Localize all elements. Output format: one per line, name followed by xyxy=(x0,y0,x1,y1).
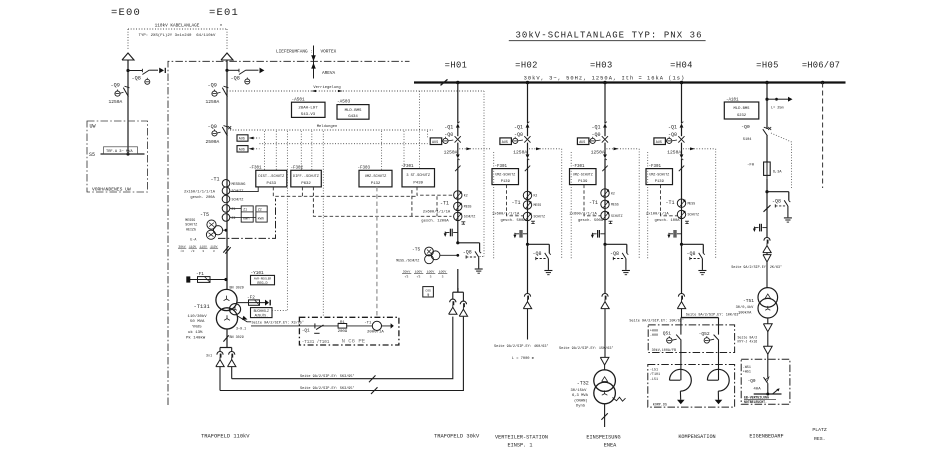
svg-text:PLATZ: PLATZ xyxy=(812,427,827,433)
wire H02 cable xyxy=(527,309,529,340)
svg-text:-Q1: -Q1 xyxy=(302,328,310,333)
dashed P433/P632 links xyxy=(273,187,417,196)
svg-text:KOMP.DS: KOMP.DS xyxy=(653,403,667,407)
svg-text:-Q9: -Q9 xyxy=(111,82,120,88)
sealing end H01 cable b xyxy=(460,301,466,304)
svg-text:100V: 100V xyxy=(427,269,435,273)
svg-text:3~9.1: 3~9.1 xyxy=(236,327,246,331)
svg-text:-Q0: -Q0 xyxy=(741,124,750,130)
svg-text:=H03: =H03 xyxy=(590,60,613,70)
svg-text:100kVA: 100kVA xyxy=(738,310,752,315)
dashed P439 to H01 CT xyxy=(417,187,453,195)
wire H03 cable xyxy=(604,309,606,358)
reactor 2 xyxy=(718,353,720,381)
wire feeder x=681.5 xyxy=(681,83,683,124)
svg-text:-T1: -T1 xyxy=(440,201,449,207)
svg-text:2x600/1/1/1A: 2x600/1/1/1A xyxy=(423,210,451,215)
svg-text:MESSG: MESSG xyxy=(185,218,195,222)
dashed P132 to N-CT xyxy=(376,187,378,317)
svg-text:Seite 9A/2/SIP.EY: 5K3/95°: Seite 9A/2/SIP.EY: 5K3/95° xyxy=(300,386,355,391)
svg-text:1x600/1/1/1A: 1x600/1/1/1A xyxy=(492,211,520,216)
earthing switch -Q8 xyxy=(603,243,606,246)
svg-text:28AH-L97: 28AH-L97 xyxy=(298,107,318,111)
cable split bar (H01 side) xyxy=(453,291,464,293)
svg-text:LIEFERUMFANG :: LIEFERUMFANG : xyxy=(276,50,313,55)
earthing switch -Q8 xyxy=(526,243,529,246)
circuit breaker -Q0/-Q1 xyxy=(680,123,684,127)
arrow down 2 (H05) xyxy=(763,324,772,332)
svg-text:L = 7000 m: L = 7000 m xyxy=(512,357,535,361)
signal dotted line Meldungen xyxy=(230,129,433,131)
svg-text:-Q1: -Q1 xyxy=(668,124,677,130)
svg-text:=H06/07: =H06/07 xyxy=(802,60,840,70)
earthing switch -Q8 (H05) xyxy=(765,190,768,193)
svg-text:ENEA: ENEA xyxy=(604,443,617,449)
svg-text:-Q0: -Q0 xyxy=(748,379,756,384)
svg-text:1250A: 1250A xyxy=(109,99,123,105)
svg-text:200Ω: 200Ω xyxy=(338,330,348,334)
svg-text:-H00: -H00 xyxy=(650,334,658,338)
wall bushing E01 xyxy=(260,68,265,74)
svg-text:MESS./SCHUTZ: MESS./SCHUTZ xyxy=(396,258,419,262)
transformer -T32 xyxy=(604,365,606,370)
svg-text:gesch. 500A: gesch. 500A xyxy=(578,218,604,223)
svg-text:UMZ-SCHUTZ: UMZ-SCHUTZ xyxy=(649,172,669,176)
svg-text:MESSUNG: MESSUNG xyxy=(232,182,246,186)
neutral earthing box N C6 PE xyxy=(299,317,399,345)
svg-text:MESS: MESS xyxy=(611,203,619,207)
svg-text:√3: √3 xyxy=(180,249,184,253)
reactor box -L51 xyxy=(648,365,735,408)
svg-text:-T1: -T1 xyxy=(364,322,372,326)
svg-text:P139: P139 xyxy=(501,180,511,184)
svg-text:-Q8: -Q8 xyxy=(533,251,542,257)
svg-text:Seite 9A/2/SIP.EY: X3/95°: Seite 9A/2/SIP.EY: X3/95° xyxy=(252,320,305,325)
svg-text:MLD.BMS: MLD.BMS xyxy=(734,107,751,111)
svg-text:110V: 110V xyxy=(200,245,207,248)
svg-text:REG-D: REG-D xyxy=(257,282,267,286)
svg-text:-T131: -T131 xyxy=(194,304,210,310)
svg-text:-T51: -T51 xyxy=(743,298,754,304)
cable sealing end xyxy=(604,244,606,294)
svg-text:-Q1: -Q1 xyxy=(444,124,453,130)
svg-text:P132: P132 xyxy=(371,182,381,186)
svg-text:(ONAN): (ONAN) xyxy=(574,398,588,403)
svg-text:-Q52: -Q52 xyxy=(699,331,710,337)
svg-text:MLD.BMS: MLD.BMS xyxy=(345,109,362,113)
svg-text:Pk 140kW: Pk 140kW xyxy=(186,335,206,340)
junction E00 xyxy=(126,69,129,72)
svg-text:VORTEX: VORTEX xyxy=(321,50,337,55)
svg-text:100V: 100V xyxy=(415,269,423,273)
svg-text:2x100/1/1A: 2x100/1/1A xyxy=(646,211,670,216)
svg-text:AREVA: AREVA xyxy=(322,71,336,76)
signal dotted line 2 xyxy=(260,143,428,145)
dashed relay-CT link xyxy=(507,185,524,216)
svg-text:110V: 110V xyxy=(189,245,196,248)
svg-text:DIST.-SCHUTZ: DIST.-SCHUTZ xyxy=(258,175,285,179)
svg-text:NYY-J 4x16: NYY-J 4x16 xyxy=(738,340,758,344)
wire feeder x=527.5 xyxy=(527,83,529,124)
trip box AUS 1 (E01) xyxy=(237,135,248,141)
svg-text:-T1: -T1 xyxy=(589,200,598,206)
svg-text:EIGENBEDARF: EIGENBEDARF xyxy=(749,433,783,439)
cable sealing end xyxy=(681,244,683,294)
svg-text:AUS: AUS xyxy=(656,141,662,145)
sealing end trafo cable a xyxy=(217,352,223,355)
svg-text:-F0: -F0 xyxy=(747,164,755,168)
svg-text:+W51: +W51 xyxy=(743,371,751,375)
reactor 1 xyxy=(680,353,682,381)
svg-text:-Q0: -Q0 xyxy=(514,132,523,138)
svg-text:P632: P632 xyxy=(301,182,311,186)
cable tick marks xyxy=(223,246,228,252)
svg-text:K2: K2 xyxy=(534,194,538,198)
circuit breaker -Q0/-Q1 (H01) xyxy=(456,123,460,127)
power transformer -T131 xyxy=(216,289,237,310)
svg-text:RES.: RES. xyxy=(814,436,826,442)
neutral wire to N-box xyxy=(238,316,252,322)
svg-text:100V: 100V xyxy=(439,269,447,273)
svg-text:Seite 9A/2/SIP.EY: 10K/63°: Seite 9A/2/SIP.EY: 10K/63° xyxy=(686,312,741,317)
svg-text:3: 3 xyxy=(442,274,444,278)
svg-text:AUS: AUS xyxy=(502,141,508,145)
tap arrow to H06 xyxy=(765,98,768,101)
svg-text:-Q1: -Q1 xyxy=(514,124,523,130)
svg-text:gesch. 200A: gesch. 200A xyxy=(190,195,215,200)
bay H01 dotted cubicle outline xyxy=(419,91,421,168)
svg-text:-T1: -T1 xyxy=(666,200,675,206)
svg-text:YNd5: YNd5 xyxy=(192,325,202,330)
svg-text:1250A: 1250A xyxy=(513,150,527,156)
svg-text:-Q1: -Q1 xyxy=(591,124,600,130)
svg-text:AUS: AUS xyxy=(432,141,438,145)
svg-text:MESS: MESS xyxy=(534,203,542,207)
svg-text:-A503: -A503 xyxy=(337,100,351,105)
earthing switch -Q8 xyxy=(680,243,683,246)
svg-text:Z2: Z2 xyxy=(258,207,262,211)
svg-text:1250A: 1250A xyxy=(667,150,681,156)
svg-text:=H05: =H05 xyxy=(756,60,779,70)
svg-text:-L51: -L51 xyxy=(650,378,658,382)
svg-text:UMZ-SCHUTZ: UMZ-SCHUTZ xyxy=(365,175,387,179)
svg-text:-T5: -T5 xyxy=(412,247,421,253)
svg-text:1250A: 1250A xyxy=(444,150,458,156)
dashed relay-CT link xyxy=(661,185,678,216)
svg-text:=H04: =H04 xyxy=(670,60,693,70)
svg-text:3: 3 xyxy=(430,274,432,278)
wire H05 feeder xyxy=(766,83,768,130)
svg-text:-T32: -T32 xyxy=(577,380,589,386)
svg-text:Seite 9A/2/SIP.EY: 15K/63°: Seite 9A/2/SIP.EY: 15K/63° xyxy=(559,346,614,351)
svg-text:SCHUTZ: SCHUTZ xyxy=(185,222,197,226)
disconnector -Q9 (E01) xyxy=(224,86,229,88)
svg-text:30kV,100A/FB: 30kV,100A/FB xyxy=(652,348,676,353)
wire E01 main down xyxy=(226,183,228,290)
circuit breaker -Q0/-Q1 xyxy=(526,123,530,127)
svg-text:AUSLÖS.: AUSLÖS. xyxy=(255,313,268,317)
arrow down (H05) xyxy=(763,255,771,262)
svg-text:30kV-SCHALTANLAGE TYP: PNX 36: 30kV-SCHALTANLAGE TYP: PNX 36 xyxy=(515,31,702,41)
svg-text:-T131 /T101: -T131 /T101 xyxy=(302,340,330,345)
wire to junction xyxy=(766,179,768,192)
svg-text:=H01: =H01 xyxy=(445,60,468,70)
cable split bar (trafo side) xyxy=(220,347,232,349)
svg-text:Seite 9A/2/SIP.EY: 4K0/63°: Seite 9A/2/SIP.EY: 4K0/63° xyxy=(494,344,549,349)
scope boundary dash-dot xyxy=(168,61,410,405)
switch cubicle box (Q51/Q52) xyxy=(648,325,734,353)
svg-text:NOTBELEUCHT.: NOTBELEUCHT. xyxy=(744,400,767,404)
svg-text:1250A: 1250A xyxy=(206,99,220,105)
svg-text:40A: 40A xyxy=(753,387,761,391)
svg-text:-Q8: -Q8 xyxy=(772,198,781,204)
dashed P632 to H01 CT xyxy=(313,187,451,216)
svg-text:G434: G434 xyxy=(348,115,358,119)
svg-text:L= 25m: L= 25m xyxy=(771,106,784,110)
svg-text:-Q0: -Q0 xyxy=(444,132,453,138)
svg-text:BN 3029: BN 3029 xyxy=(230,286,244,290)
earthing switch -Q8 (H01) xyxy=(456,241,459,244)
svg-text:E-A: E-A xyxy=(190,238,196,242)
wall bushing E00 xyxy=(159,68,164,74)
svg-text:2000/1A: 2000/1A xyxy=(367,330,384,335)
surge capacitor xyxy=(677,233,682,235)
wire P433 to CT xyxy=(230,187,258,192)
wire to T51 xyxy=(766,262,768,288)
svg-text:-Q0: -Q0 xyxy=(591,132,600,138)
cable sealing end xyxy=(527,244,529,294)
svg-text:P139: P139 xyxy=(578,180,588,184)
svg-text:UMZ-SCHUTZ: UMZ-SCHUTZ xyxy=(495,172,515,176)
svg-text:-Q8: -Q8 xyxy=(687,251,696,257)
svg-text:TRF.A 3~ MVA: TRF.A 3~ MVA xyxy=(106,150,133,154)
svg-text:-L51: -L51 xyxy=(650,369,658,373)
svg-text:S5: S5 xyxy=(89,152,95,158)
110kV cable dotted outline xyxy=(128,28,227,30)
wire T32 down xyxy=(604,404,606,427)
wire E00 drop xyxy=(127,60,129,154)
svg-text:S43-V3: S43-V3 xyxy=(301,113,316,117)
svg-text:3: 3 xyxy=(202,250,204,253)
current transformers -T1 xyxy=(523,191,531,199)
bay dotted cubicle outline xyxy=(493,152,495,260)
svg-text:-Q8: -Q8 xyxy=(132,76,141,82)
disconnector -Q8 (E00) xyxy=(142,70,149,75)
circuit breaker -Q0/-Q1 xyxy=(603,123,607,127)
LV distribution box xyxy=(741,359,790,404)
svg-text:√3: √3 xyxy=(417,274,421,278)
busbar 30kV xyxy=(414,81,846,83)
svg-text:2x150/1/1/1/1A: 2x150/1/1/1/1A xyxy=(184,190,216,195)
svg-text:Seite 9A/2/SIP.EY: 2K/63°: Seite 9A/2/SIP.EY: 2K/63° xyxy=(731,265,782,270)
wire feeder x=605.0 xyxy=(604,83,606,124)
svg-text:Z2: Z2 xyxy=(232,216,236,220)
kWh meter 1 xyxy=(241,206,253,222)
svg-text:30/0,4kV: 30/0,4kV xyxy=(736,305,754,310)
svg-text:BN 3029: BN 3029 xyxy=(230,336,244,340)
svg-text:Seite 9A/2/SIP.EY: 10K/63°: Seite 9A/2/SIP.EY: 10K/63° xyxy=(629,318,684,323)
svg-text:3 ST.SCHUTZ: 3 ST.SCHUTZ xyxy=(406,174,431,178)
svg-text:K2: K2 xyxy=(464,193,468,197)
svg-text:MESS: MESS xyxy=(464,205,472,209)
sealing end trafo cable b xyxy=(229,352,235,355)
svg-text:DIFF.-SCHUTZ: DIFF.-SCHUTZ xyxy=(293,175,320,179)
cable termination E01 xyxy=(221,53,233,60)
svg-text:n: n xyxy=(220,24,222,28)
wire E01 tap xyxy=(227,69,239,71)
svg-text:-Q8: -Q8 xyxy=(463,249,472,255)
svg-text:TRAFOFELD 110kV: TRAFOFELD 110kV xyxy=(201,433,250,439)
svg-text:N C6 PE: N C6 PE xyxy=(342,337,366,344)
buchholz relay box xyxy=(251,308,273,318)
svg-text:P139: P139 xyxy=(655,180,665,184)
disconnector -Q8 (E01) xyxy=(239,70,246,75)
disconnector -Q9 (E00) xyxy=(125,86,130,88)
svg-text:3: 3 xyxy=(213,250,215,253)
cable termination E00 xyxy=(122,53,134,60)
30kV cable run (pair) xyxy=(219,367,221,391)
svg-text:Verriegelung: Verriegelung xyxy=(313,85,340,90)
surge capacitor xyxy=(523,233,528,235)
existing substation UW outline xyxy=(87,121,148,192)
svg-text:P439: P439 xyxy=(413,181,423,185)
svg-text:SCHUTZ: SCHUTZ xyxy=(232,198,244,202)
dotted drops to relay boxes xyxy=(264,131,266,170)
svg-text:SCHUTZ: SCHUTZ xyxy=(464,215,476,219)
svg-text:KOMPENSATION: KOMPENSATION xyxy=(678,434,715,440)
svg-text:-Q0: -Q0 xyxy=(208,124,217,130)
bay dotted cubicle outline xyxy=(570,152,572,260)
svg-text:UMZ-SCHUTZ: UMZ-SCHUTZ xyxy=(573,172,593,176)
wire T131 to cable split xyxy=(226,329,228,348)
wire H04 cable xyxy=(681,309,683,318)
svg-text:Meldungen: Meldungen xyxy=(317,124,338,129)
svg-text:SCHUTZ: SCHUTZ xyxy=(611,214,623,218)
svg-text:HEIZG: HEIZG xyxy=(186,227,196,231)
svg-text:6,3A: 6,3A xyxy=(773,170,782,174)
svg-text:AVR-REGLER: AVR-REGLER xyxy=(254,277,272,280)
dashed relay-CT link xyxy=(584,185,601,216)
current transformers -T1 xyxy=(677,199,685,207)
svg-text:P433: P433 xyxy=(266,182,276,186)
arrow down 3 (H05) xyxy=(767,332,769,347)
svg-text:3x1: 3x1 xyxy=(206,355,212,359)
bay dotted cubicle outline xyxy=(647,152,649,260)
svg-text:=E00: =E00 xyxy=(111,7,141,19)
svg-text:BUCHHOLZ: BUCHHOLZ xyxy=(254,309,269,313)
svg-text:30kV: 30kV xyxy=(178,244,185,248)
svg-text:TYP: 2XS(FL)2Y 3x1x240 64/110: TYP: 2XS(FL)2Y 3x1x240 64/110kV xyxy=(139,33,216,38)
svg-text:Q51: Q51 xyxy=(663,330,672,336)
svg-text:110V: 110V xyxy=(210,245,217,248)
svg-text:φ: φ xyxy=(427,294,429,298)
cable sealing end (H05) xyxy=(764,238,770,241)
disconnector -Q0 (E01) xyxy=(224,126,229,128)
svg-text:UW: UW xyxy=(90,124,96,130)
svg-text:=H02: =H02 xyxy=(515,60,538,70)
interlocking dotted line Verriegelung xyxy=(227,90,484,92)
wires CT to meters xyxy=(230,207,241,209)
svg-text:2500A: 2500A xyxy=(206,139,220,145)
svg-text:6,3 MVA: 6,3 MVA xyxy=(572,394,589,398)
svg-text:gesch. 500A: gesch. 500A xyxy=(501,218,527,223)
trip box AUS 2 (E01) xyxy=(237,146,248,152)
svg-text:VORHANDENES UW: VORHANDENES UW xyxy=(92,187,131,193)
svg-text:2x600/1/1/1A: 2x600/1/1/1A xyxy=(569,211,597,216)
wire T5 to line xyxy=(223,229,227,231)
svg-text:30kV, 3~, 50Hz, 1250A, Ith = 1: 30kV, 3~, 50Hz, 1250A, Ith = 16kA (1s) xyxy=(524,76,686,82)
compensation tee xyxy=(681,317,719,319)
svg-text:gesch. 100A: gesch. 100A xyxy=(655,218,681,223)
svg-text:EINSPEISUNG: EINSPEISUNG xyxy=(586,435,620,441)
junction E01 xyxy=(225,69,228,72)
wire E00 tap to UW bushing xyxy=(128,70,142,72)
svg-text:√3: √3 xyxy=(191,249,195,253)
svg-text:COS: COS xyxy=(425,289,431,292)
svg-text:SCHUTZ: SCHUTZ xyxy=(232,189,244,193)
LV busbar xyxy=(754,393,782,395)
current transformers -T1 (H01) xyxy=(454,191,462,199)
wire H01 to cable split xyxy=(457,269,459,292)
scope split arrows VORTEX/AREVA xyxy=(313,46,315,79)
svg-text:VERTEILER-STATION: VERTEILER-STATION xyxy=(495,435,548,441)
surge capacitor xyxy=(600,233,605,235)
svg-text:AUS: AUS xyxy=(579,141,585,145)
svg-text:-T1: -T1 xyxy=(512,200,521,206)
busbar junctions xyxy=(456,81,460,85)
future bay H06/07 dashed stub xyxy=(822,83,824,189)
svg-text:30/15kV: 30/15kV xyxy=(571,388,588,393)
svg-text:gesch. 1200A: gesch. 1200A xyxy=(421,218,449,223)
svg-text:Z1: Z1 xyxy=(232,207,236,211)
svg-text:Z1: Z1 xyxy=(243,207,247,211)
svg-text:-Q0: -Q0 xyxy=(668,132,677,138)
arrow down (H03) xyxy=(600,357,609,365)
svg-text:AUS: AUS xyxy=(239,137,245,141)
mechanical dash-dot link xyxy=(218,199,276,239)
svg-text:50 MVA: 50 MVA xyxy=(190,320,205,324)
svg-text:-T1: -T1 xyxy=(211,176,220,182)
svg-text:30kV: 30kV xyxy=(403,269,411,273)
svg-text:-Q9: -Q9 xyxy=(208,82,217,88)
kWh meter 2 xyxy=(256,206,267,222)
svg-text:+H00: +H00 xyxy=(650,330,658,334)
wire H01 feeder xyxy=(457,83,459,124)
svg-text:-T5: -T5 xyxy=(200,212,209,218)
earthing zigzag (T32) xyxy=(613,397,626,401)
svg-text:EINSP. 1: EINSP. 1 xyxy=(508,443,533,449)
svg-text:=E01: =E01 xyxy=(209,7,239,19)
surge capacitor (H05) xyxy=(762,227,767,229)
svg-text:-Q8: -Q8 xyxy=(610,251,619,257)
cos phi meter box xyxy=(423,287,434,297)
svg-text:kWh: kWh xyxy=(258,216,264,221)
wire T51 down xyxy=(767,318,769,324)
svg-text:/T101: /T101 xyxy=(650,372,660,377)
svg-text:AUS: AUS xyxy=(239,148,245,152)
svg-text:√3: √3 xyxy=(405,274,409,278)
svg-text:SCHUTZ: SCHUTZ xyxy=(688,213,700,217)
svg-text:uk 13%: uk 13% xyxy=(188,330,203,335)
svg-text:1250A: 1250A xyxy=(591,150,605,156)
svg-text:Seite 9A/2/SIP.EY: 5K3/95°: Seite 9A/2/SIP.EY: 5K3/95° xyxy=(300,374,355,379)
surge capacitor (H01) xyxy=(453,232,458,234)
svg-text:S104: S104 xyxy=(743,138,752,142)
svg-text:110/30kV: 110/30kV xyxy=(188,314,208,319)
svg-text:Dyn5: Dyn5 xyxy=(576,405,586,409)
wire E01 drop xyxy=(226,60,228,183)
svg-text:G232: G232 xyxy=(737,114,747,118)
